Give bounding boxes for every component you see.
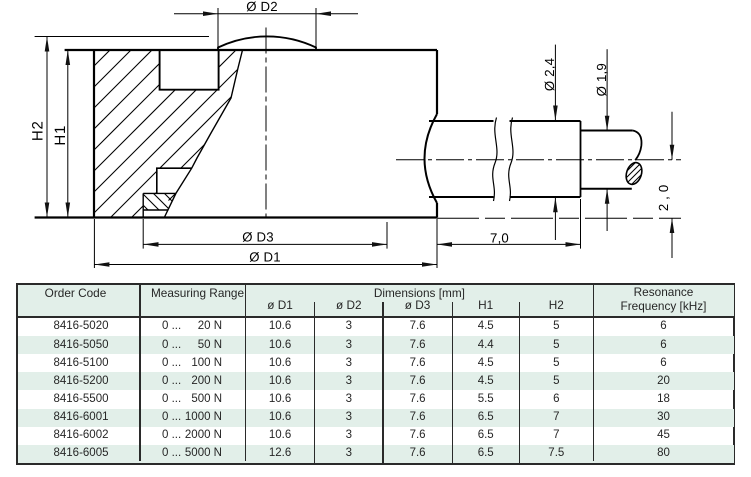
shaft lower line <box>429 196 581 198</box>
dimension H2 <box>46 37 48 218</box>
row 8416-5200 <box>21 374 141 388</box>
label 2.0 <box>656 181 671 211</box>
table divider x7 <box>593 285 595 461</box>
hidden base line <box>437 217 681 219</box>
label D2 <box>246 0 278 14</box>
dimension 7.0 <box>437 199 581 249</box>
table sub-divider x6 <box>519 302 520 464</box>
header Dimensions [mm] <box>319 286 519 300</box>
preload sleeve <box>157 168 192 193</box>
shaft step face <box>580 121 582 197</box>
row 8416-6001 <box>21 410 141 424</box>
table row stripe 4 <box>18 372 734 390</box>
svg-text:2,0: 2,0 <box>656 181 671 211</box>
svg-text:H2: H2 <box>30 120 47 141</box>
svg-text:Ø 2,4: Ø 2,4 <box>542 58 557 91</box>
table divider x2 <box>245 285 247 461</box>
shaft break lines <box>493 118 513 202</box>
label 7.0 <box>490 231 509 246</box>
table row stripe 2 <box>18 336 734 354</box>
table row stripe 6 <box>18 409 734 427</box>
header Order Code <box>16 286 136 300</box>
pin rounded tip <box>633 131 642 161</box>
header Measuring Range <box>138 286 258 300</box>
dimension H1 <box>67 50 69 218</box>
svg-text:Ø D1: Ø D1 <box>249 249 281 264</box>
body bottom edge <box>35 216 437 218</box>
table header rule <box>16 316 735 318</box>
header &#248; D3 <box>383 298 453 312</box>
annular groove <box>160 50 219 90</box>
H2 reference line <box>35 36 209 38</box>
header &#248; D1 <box>245 298 315 312</box>
svg-text:Ø D2: Ø D2 <box>246 0 278 14</box>
pin upper line <box>581 130 633 132</box>
table sub-divider x5 <box>452 302 453 464</box>
svg-text:Ø 1,9: Ø 1,9 <box>594 63 609 96</box>
row 8416-5020 <box>21 319 141 333</box>
membrane profile <box>164 50 242 218</box>
row 8416-5100 <box>21 356 141 370</box>
svg-text:H1: H1 <box>52 125 69 146</box>
dome <box>218 36 316 50</box>
label D3 <box>242 230 274 245</box>
header &#248; D2 <box>314 298 384 312</box>
row 8416-5500 <box>21 392 141 406</box>
dome centerline <box>265 28 267 223</box>
label D1 <box>249 249 281 264</box>
table sub-divider x4 <box>382 302 383 464</box>
header Resonance Frequency <box>594 286 734 314</box>
label 1.9 <box>594 63 609 96</box>
header H2 <box>521 298 591 312</box>
dimension 2.4 <box>554 45 556 240</box>
dimension 1.9 <box>606 49 608 231</box>
dimension D3 <box>143 219 387 249</box>
crystal element hatching <box>131 193 181 211</box>
shaft centerline <box>396 159 681 161</box>
tip ball hatching <box>604 158 658 188</box>
dimension D1 <box>94 219 437 268</box>
row 8416-6005 <box>21 446 141 460</box>
svg-text:Ø D3: Ø D3 <box>242 230 274 245</box>
dimension D2 <box>174 8 358 50</box>
table row stripe 8 <box>18 445 734 463</box>
label 2.4 <box>542 58 557 91</box>
row 8416-6002 <box>21 428 141 442</box>
table divider x1 <box>139 285 141 461</box>
body top surface <box>65 49 437 51</box>
shaft upper line <box>429 120 581 122</box>
body left edge <box>93 50 95 218</box>
body right edge <box>436 50 438 218</box>
svg-text:7,0: 7,0 <box>490 231 509 246</box>
pin lower line <box>581 188 632 190</box>
header H1 <box>451 298 521 312</box>
row 8416-5050 <box>21 338 141 352</box>
table sub-divider x3 <box>314 302 315 464</box>
crystal element outline <box>143 193 176 217</box>
body section hatching <box>0 46 303 218</box>
label H2 <box>30 120 47 141</box>
table outer frame <box>16 283 735 465</box>
tip ball section <box>624 161 645 187</box>
dimension 2.0 <box>671 112 673 258</box>
label H1 <box>52 125 69 146</box>
table header background <box>18 285 734 316</box>
shaft seat arc <box>425 114 438 203</box>
